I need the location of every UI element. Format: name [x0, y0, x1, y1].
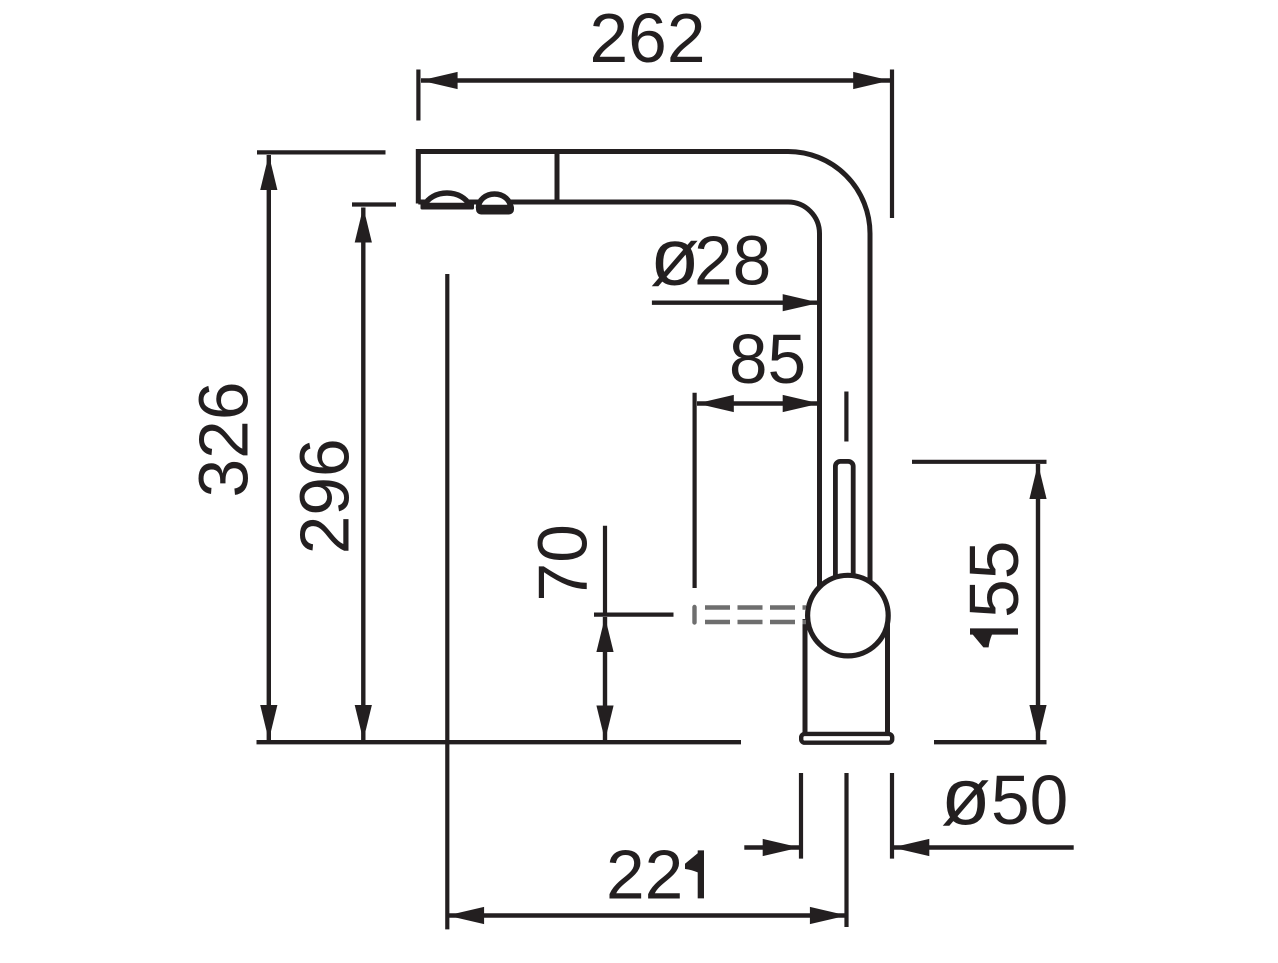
svg-text:22: 22 [606, 835, 683, 913]
svg-text:ø28: ø28 [650, 213, 771, 303]
svg-text:262: 262 [590, 0, 706, 77]
svg-text:296: 296 [286, 438, 364, 554]
svg-text:326: 326 [185, 382, 263, 498]
svg-text:85: 85 [729, 320, 806, 398]
svg-text:55: 55 [955, 541, 1033, 618]
svg-text:ø50: ø50 [941, 752, 1068, 842]
svg-text:70: 70 [524, 524, 602, 601]
